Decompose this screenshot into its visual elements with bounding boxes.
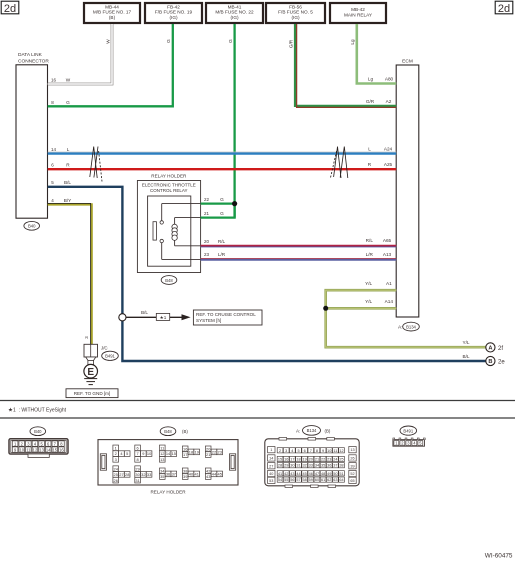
relay contact blade [153,222,156,240]
svg-text:A:: A: [398,325,403,331]
wire R (CAN) DLC pin 6 to ECM A25 [48,168,397,170]
data link connector box B40 [16,65,48,218]
svg-text:2e: 2e [498,359,505,365]
svg-text:38: 38 [183,468,187,473]
svg-text:15: 15 [278,458,282,462]
svg-text:G: G [66,100,70,105]
wire L/R relay pin 23 to ECM A13 [201,259,397,260]
svg-text:B/L: B/L [462,354,469,359]
svg-text:B40: B40 [34,429,42,434]
svg-text:W: W [105,39,110,44]
junction open circle on B/L [119,314,126,321]
svg-text:36: 36 [327,464,331,468]
svg-text:M/B FUSE NO. 22: M/B FUSE NO. 22 [215,10,254,15]
connector view B40 oval [30,427,46,436]
svg-text:35: 35 [160,474,164,479]
ref to gnd box [66,389,118,398]
svg-text:41: 41 [278,472,282,476]
svg-text:ELECTRONIC THROTTLE: ELECTRONIC THROTTLE [142,182,196,187]
svg-text:F/B FUSE NO. 19: F/B FUSE NO. 19 [155,10,193,15]
svg-text:M/B FUSE NO. 17: M/B FUSE NO. 17 [93,10,132,15]
grid reference 2d top-left [1,1,19,15]
svg-text:27: 27 [119,472,123,477]
svg-text:5: 5 [297,449,299,453]
ref to cruise control box [193,310,262,325]
wire B/L from DLC pin 5 down and right to connector B (2e) [48,187,486,361]
supply box MB-44 [84,3,140,23]
svg-text:45: 45 [218,472,222,477]
svg-text:(IG): (IG) [169,15,178,20]
arrow head [182,314,191,320]
svg-text:44: 44 [296,472,300,476]
svg-text:CONTROL RELAY: CONTROL RELAY [150,188,188,193]
svg-text:47: 47 [315,472,319,476]
svg-text:20: 20 [204,239,210,244]
svg-text:26: 26 [114,478,118,483]
svg-text:14: 14 [46,447,51,452]
wire B/Y from DLC pin 4 to joint connector [48,203,92,344]
connector view B134 label [296,426,331,436]
svg-text:B40: B40 [28,224,36,229]
svg-text:G/R: G/R [289,39,294,48]
oval B491 [102,351,119,360]
wire G from FB-42 to DLC pin 8 [48,24,173,106]
svg-text:43: 43 [290,472,294,476]
svg-text:23: 23 [204,252,210,257]
connector view B491 body [393,438,425,446]
svg-text:DATA LINK: DATA LINK [18,52,43,58]
junction dot G [232,201,237,206]
svg-text:25: 25 [339,458,343,462]
svg-text:62: 62 [327,478,331,482]
svg-text:Y/L: Y/L [462,340,469,345]
svg-text:FB-56: FB-56 [289,4,302,9]
svg-text:15: 15 [172,451,176,456]
svg-text:22: 22 [321,458,325,462]
wire G relay pin 22 to junction [201,202,235,204]
svg-text:F/B FUSE NO. 5: F/B FUSE NO. 5 [278,10,313,15]
svg-text:14: 14 [269,457,273,461]
svg-text:29: 29 [135,466,139,471]
svg-text:G/R: G/R [366,99,375,104]
svg-text:11: 11 [333,449,337,453]
svg-text:26: 26 [350,457,354,461]
svg-text:17: 17 [183,452,187,457]
svg-text:32: 32 [303,464,307,468]
svg-text:61: 61 [321,478,325,482]
svg-text:E: E [87,367,94,378]
svg-text:22: 22 [204,197,210,202]
connector circle A 2f [486,343,504,352]
svg-text:58: 58 [303,478,307,482]
svg-text:28: 28 [278,464,282,468]
svg-text:REF. TO GND [m]: REF. TO GND [m] [74,391,111,396]
svg-text:14: 14 [51,147,57,152]
svg-text:SYSTEM [h]: SYSTEM [h] [196,318,221,323]
svg-text:7: 7 [310,449,312,453]
svg-text:46: 46 [309,472,313,476]
svg-text:G: G [220,197,224,202]
wire Y/L branch to A14 [326,307,397,310]
connector view B40 body [9,439,68,458]
junction dot Y/L [323,306,328,311]
svg-text:19: 19 [195,450,199,455]
svg-text:ECM: ECM [402,59,413,65]
B48 left clip [100,454,235,470]
twisted pair symbol right [330,147,348,180]
svg-text:16: 16 [51,78,57,83]
svg-text:A13: A13 [383,252,392,257]
ground terminal funnel [86,357,96,360]
svg-text:(B): (B) [182,429,188,434]
svg-text:11: 11 [160,445,164,450]
svg-text:3: 3 [115,457,117,462]
svg-text:1: 1 [115,445,117,450]
supply box MB-42 [330,3,386,23]
connector view B48 oval [160,427,176,436]
svg-text:13: 13 [350,448,354,452]
svg-text:B491: B491 [105,354,115,359]
electronic throttle control relay U1 box [148,196,191,266]
wire Lg from MB-42 MAIN RELAY to ECM A80 [357,24,396,84]
ECM connector label A: B134 [398,322,419,331]
svg-text:2f: 2f [498,346,503,352]
svg-text:9: 9 [142,451,144,456]
svg-text:39: 39 [350,464,354,468]
svg-text:31: 31 [296,464,300,468]
wire W feed from MB-44 (white wire, outlined) [48,24,112,84]
svg-text:34: 34 [315,464,319,468]
svg-text:A2: A2 [386,99,392,104]
svg-text:(B): (B) [109,15,116,20]
svg-text:16: 16 [284,458,288,462]
svg-text:L/R: L/R [218,252,226,257]
B134 pin cells [268,447,357,484]
svg-text:R/L: R/L [218,239,226,244]
svg-text:18: 18 [189,450,193,455]
svg-text:A25: A25 [384,162,393,167]
separator line upper [0,400,515,402]
svg-text:6: 6 [304,449,306,453]
svg-text:L/R: L/R [366,252,374,257]
svg-text:13: 13 [39,447,44,452]
svg-text:Y/L: Y/L [365,299,372,304]
svg-text:16: 16 [59,447,64,452]
svg-text:9: 9 [322,449,324,453]
svg-text:17: 17 [290,458,294,462]
svg-text:25: 25 [114,472,118,477]
connector view B491 oval [400,426,417,435]
svg-text:G: G [228,39,233,43]
svg-text:63: 63 [333,478,337,482]
svg-text:Lg: Lg [350,39,355,45]
svg-text:48: 48 [321,472,325,476]
wire G/R from FB-56 to ECM A2 [295,24,396,107]
connector oval B40 [24,221,40,230]
svg-text:49: 49 [327,472,331,476]
svg-text:2: 2 [279,449,281,453]
wire Y/L ECM A1/A14 to connector A (2f) [326,290,486,347]
svg-text:32: 32 [141,472,145,477]
svg-text:39: 39 [183,474,187,479]
connector view B48 body [98,440,238,485]
svg-text:41: 41 [195,472,199,477]
svg-text:A14: A14 [385,299,394,304]
svg-text:22: 22 [212,450,216,455]
svg-text:W: W [66,78,71,83]
relay contact circles [160,221,163,224]
svg-text:B134: B134 [307,428,317,433]
svg-text:11: 11 [26,447,31,452]
svg-text:38: 38 [339,464,343,468]
svg-text:4: 4 [291,449,293,453]
svg-text:8: 8 [316,449,318,453]
svg-text:RELAY HOLDER: RELAY HOLDER [151,174,187,179]
svg-text:A:: A: [296,428,300,433]
svg-text:52: 52 [350,472,354,476]
svg-text:★1 : WITHOUT EyeSight: ★1 : WITHOUT EyeSight [8,407,67,414]
svg-text:A: A [488,346,492,352]
svg-text:33: 33 [309,464,313,468]
svg-text:56: 56 [290,478,294,482]
svg-text:J/C: J/C [101,346,108,351]
svg-text:2d: 2d [4,3,16,15]
svg-text:MB-41: MB-41 [228,4,242,9]
relay coil [172,224,177,240]
wire G from MB-41 down to relay junction [233,24,235,218]
svg-text:51: 51 [339,472,343,476]
svg-text:27: 27 [269,464,273,468]
svg-text:21: 21 [204,211,210,216]
svg-text:A80: A80 [385,76,394,81]
svg-text:REF. TO CRUISE CONTROL: REF. TO CRUISE CONTROL [196,312,256,317]
svg-text:(IG): (IG) [291,15,300,20]
svg-text:G: G [220,211,224,216]
svg-text:13: 13 [160,457,164,462]
svg-text:35: 35 [321,464,325,468]
svg-text:Y/L: Y/L [365,281,372,286]
wire G relay pin 21 to junction [201,204,235,218]
svg-text:65: 65 [350,479,354,483]
svg-text:12: 12 [339,449,343,453]
wire L (CAN) DLC pin 14 to ECM A24 [48,152,397,154]
svg-text:MB-44: MB-44 [105,4,119,9]
svg-text:57: 57 [296,478,300,482]
branch line to cruise ref [126,316,183,318]
svg-text:(B): (B) [325,428,331,433]
svg-text:B: B [488,359,492,365]
separator line lower [0,417,515,419]
B48 pin clusters [113,445,223,483]
relay internal leads [162,204,201,260]
svg-text:31: 31 [135,478,139,483]
svg-text:33: 33 [147,472,151,477]
wire R/L relay pin 20 to ECM A65 [201,246,397,247]
svg-text:6: 6 [137,445,139,450]
connector view B134 body [265,439,359,486]
svg-text:42: 42 [206,468,210,473]
svg-text:21: 21 [206,452,210,457]
svg-text:2: 2 [115,451,117,456]
grid reference 2d top-right [495,1,513,15]
B134 latch tabs [279,438,336,488]
svg-text:MB-42: MB-42 [351,7,365,12]
svg-text:16: 16 [183,446,187,451]
supply box FB-42 [145,3,202,23]
svg-text:G: G [166,39,171,43]
svg-text:42: 42 [284,472,288,476]
svg-text:36: 36 [166,472,170,477]
svg-text:43: 43 [206,474,210,479]
B48 right clip [230,454,236,470]
svg-text:12: 12 [33,447,38,452]
svg-text:18: 18 [296,458,300,462]
svg-text:R/L: R/L [366,238,374,243]
svg-text:53: 53 [269,479,273,483]
svg-text:3: 3 [285,449,287,453]
svg-text:CONNECTOR: CONNECTOR [18,59,49,65]
svg-text:L: L [368,146,371,151]
svg-text:B/Y: B/Y [64,198,72,203]
connector circle B 2e [486,356,506,365]
ECM box [396,65,419,317]
twisted pair symbol left [90,147,102,182]
svg-text:RELAY HOLDER: RELAY HOLDER [150,490,186,495]
svg-text:L: L [67,147,70,152]
ground symbol [84,379,97,385]
svg-text:40: 40 [269,472,273,476]
svg-text:Lg: Lg [368,76,374,81]
svg-text:A1: A1 [386,281,392,286]
svg-text:10: 10 [19,447,24,452]
svg-text:15: 15 [53,447,58,452]
svg-text:B/L: B/L [141,310,148,315]
svg-text:B48: B48 [165,278,173,283]
wire L upper outline [48,151,397,153]
svg-text:21: 21 [315,458,319,462]
svg-text:WI-60475: WI-60475 [485,553,513,560]
supply box MB-41 [206,3,263,23]
svg-text:★1: ★1 [160,315,167,320]
svg-text:19: 19 [303,458,307,462]
svg-text:5: 5 [126,451,128,456]
svg-text:37: 37 [172,472,176,477]
svg-text:A24: A24 [384,146,393,151]
svg-text:(IG): (IG) [230,15,239,20]
svg-text:2d: 2d [498,3,510,15]
svg-text:FB-42: FB-42 [167,4,180,9]
svg-text:B/L: B/L [64,180,71,185]
svg-text:B491: B491 [403,428,413,433]
svg-text:29: 29 [284,464,288,468]
relay holder oval B48 [161,276,177,285]
ground point E [84,364,98,378]
svg-text:28: 28 [125,472,129,477]
svg-text:54: 54 [278,478,282,482]
svg-text:64: 64 [339,478,343,482]
svg-text:55: 55 [284,478,288,482]
svg-text:A65: A65 [383,238,392,243]
svg-text:23: 23 [327,458,331,462]
joint connector J/C [84,344,98,357]
svg-text:1: 1 [270,448,272,452]
svg-text:50: 50 [333,472,337,476]
svg-text:B48: B48 [164,429,172,434]
svg-text:8: 8 [137,457,139,462]
svg-text:59: 59 [309,478,313,482]
relay holder box [137,181,200,273]
svg-text:30: 30 [290,464,294,468]
svg-text:20: 20 [309,458,313,462]
svg-text:45: 45 [303,472,307,476]
supply box FB-56 [266,3,325,23]
svg-text:37: 37 [333,464,337,468]
B40 pin cells [12,441,64,452]
svg-text:10: 10 [327,449,331,453]
svg-text:B134: B134 [406,324,416,329]
svg-text:12: 12 [160,451,164,456]
svg-text:24: 24 [333,458,337,462]
svg-text:60: 60 [315,478,319,482]
footnote box *1 [156,313,169,320]
svg-text:7: 7 [137,451,139,456]
svg-text:23: 23 [218,450,222,455]
svg-text:MAIN RELAY: MAIN RELAY [344,12,373,17]
